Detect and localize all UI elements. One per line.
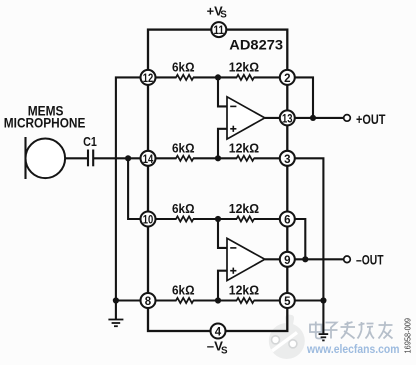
svg-text:9: 9 xyxy=(284,255,290,267)
svg-text:10: 10 xyxy=(143,215,154,227)
svg-text:11: 11 xyxy=(214,25,225,37)
svg-text:12kΩ: 12kΩ xyxy=(229,140,259,155)
svg-text:5: 5 xyxy=(284,296,291,308)
svg-text:12kΩ: 12kΩ xyxy=(229,283,259,298)
svg-text:6kΩ: 6kΩ xyxy=(172,59,195,74)
svg-text:6kΩ: 6kΩ xyxy=(172,283,195,298)
svg-text:13: 13 xyxy=(282,114,293,126)
svg-text:6: 6 xyxy=(284,215,290,227)
svg-text:6kΩ: 6kΩ xyxy=(172,140,195,155)
svg-text:8: 8 xyxy=(145,296,152,308)
svg-text:S: S xyxy=(221,345,228,356)
svg-text:6kΩ: 6kΩ xyxy=(172,201,195,216)
svg-text:12kΩ: 12kΩ xyxy=(229,59,259,74)
svg-text:+OUT: +OUT xyxy=(356,111,386,127)
svg-text:4: 4 xyxy=(215,327,222,339)
svg-text:12kΩ: 12kΩ xyxy=(229,201,259,216)
svg-text:12: 12 xyxy=(143,73,154,85)
svg-text:2: 2 xyxy=(284,73,290,85)
svg-text:www.elecfans.com: www.elecfans.com xyxy=(306,344,399,356)
svg-text:AD8273: AD8273 xyxy=(229,37,283,52)
svg-text:3: 3 xyxy=(284,154,290,166)
svg-text:14: 14 xyxy=(143,154,154,166)
svg-text:MICROPHONE: MICROPHONE xyxy=(4,116,86,131)
svg-text:16958-009: 16958-009 xyxy=(404,317,413,353)
svg-text:C1: C1 xyxy=(83,134,97,149)
svg-text:–OUT: –OUT xyxy=(356,251,384,267)
svg-text:S: S xyxy=(220,10,227,21)
